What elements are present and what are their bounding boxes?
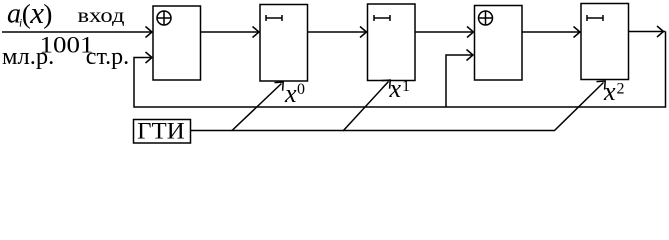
svg-text:1: 1 [402, 78, 410, 95]
svg-text:0: 0 [297, 81, 305, 98]
svg-text:вход: вход [78, 6, 125, 27]
svg-text:x: x [603, 77, 616, 106]
svg-text:мл.р.: мл.р. [2, 43, 54, 70]
svg-text:x: x [284, 79, 297, 108]
svg-text:x: x [29, 0, 44, 30]
svg-text:): ) [43, 0, 52, 29]
svg-text:x: x [389, 74, 402, 103]
svg-text:2: 2 [617, 81, 625, 98]
svg-text:ст.р.: ст.р. [86, 44, 129, 70]
svg-text:ГТИ: ГТИ [137, 119, 185, 145]
